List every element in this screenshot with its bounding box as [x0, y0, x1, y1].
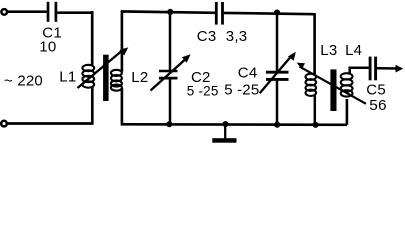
wire L3 bottom to bus corner [314, 96, 317, 126]
capacitor C1 [48, 2, 56, 22]
terminal T2 (bottom left input) [1, 121, 7, 127]
wire L4 top to C5 [349, 67, 369, 73]
transformer L1/L2 tuning arrow [78, 47, 129, 88]
junction dot bottom of C2 [166, 121, 172, 127]
junction dot ground [223, 121, 229, 127]
ground [212, 124, 236, 143]
svg-text:L3: L3 [320, 42, 337, 59]
svg-text:5 -25: 5 -25 [224, 82, 259, 99]
junction dot top of C4 [274, 10, 280, 16]
transformer core (L1/L2 iron bar) [103, 55, 109, 101]
inductor L2 (secondary coil) [111, 70, 122, 91]
capacitor C5 [370, 57, 376, 81]
svg-text:5 -25: 5 -25 [187, 83, 219, 98]
trimmer capacitor C2 [159, 11, 178, 125]
C4 arrow [260, 52, 296, 93]
svg-text:~ 220: ~ 220 [4, 73, 43, 90]
svg-text:56: 56 [369, 97, 387, 114]
svg-text:L4: L4 [345, 42, 362, 59]
trimmer capacitor C4 [266, 12, 289, 126]
transformer core (L3/L4 iron bar) [330, 69, 336, 111]
capacitor C3 [216, 2, 222, 25]
junction dot bottom of C4 [274, 122, 280, 128]
wire C1 to L1 top (corner at x=92.2) [57, 11, 92, 65]
terminal T1 (top left input) [1, 9, 7, 15]
svg-text:L2: L2 [131, 69, 148, 86]
svg-text:C3: C3 [197, 28, 217, 45]
svg-text:3,3: 3,3 [226, 28, 247, 45]
transformer L3/L4 coupling arrow [297, 63, 366, 104]
junction dot top of C2 [167, 9, 173, 15]
inductor L4 [341, 73, 353, 96]
svg-text:L1: L1 [59, 69, 76, 86]
inductor L1 (primary coil) [82, 65, 94, 88]
top rail segment 2 (L2 loop top) [121, 11, 315, 75]
wire L1 bottom to T2 [7, 87, 92, 124]
wire T1 to C1 [7, 10, 46, 13]
C2 arrow [151, 54, 191, 90]
wire L2 bottom to bus [121, 88, 347, 125]
svg-text:C4: C4 [238, 64, 258, 81]
inductor L3 [306, 74, 317, 96]
svg-text:10: 10 [39, 39, 56, 56]
output wire and arrow [377, 65, 403, 73]
junction dot bottom right corner [313, 122, 319, 128]
